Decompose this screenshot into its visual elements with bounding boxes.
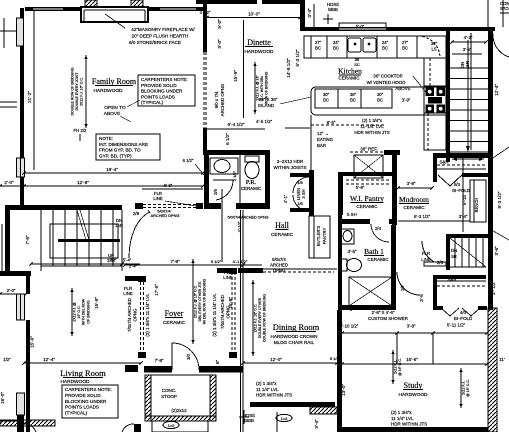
PR partition	[239, 155, 241, 203]
svg-text:11’: 11’	[499, 357, 505, 362]
arch opng dash e	[205, 52, 207, 128]
svg-text:2X12 F.J. @ 16” O.C.: 2X12 F.J. @ 16” O.C.	[194, 285, 198, 318]
svg-text:(2) 1 3/4”x: (2) 1 3/4”x	[391, 410, 412, 415]
cabinet division	[376, 36, 378, 58]
island div1	[337, 89, 339, 108]
arch dash w	[140, 282, 142, 352]
svg-text:4/0: 4/0	[460, 310, 467, 315]
dining north arch line	[263, 268, 337, 270]
svg-text:5/0x7/4: 5/0x7/4	[272, 257, 286, 262]
svg-text:ISLAND: ISLAND	[258, 103, 275, 108]
post foyer arch top	[138, 276, 146, 282]
svg-text:6”: 6”	[215, 359, 220, 364]
svg-text:24”: 24”	[333, 40, 340, 45]
svg-text:15R: 15R	[465, 61, 470, 69]
kitchen island	[311, 87, 447, 115]
svg-text:3’-5: 3’-5	[419, 294, 424, 302]
stair break diag	[77, 210, 86, 240]
svg-text:12’-4”: 12’-4”	[43, 357, 55, 362]
svg-text:3/0: 3/0	[186, 353, 191, 359]
svg-text:Mudroom: Mudroom	[399, 195, 429, 204]
svg-text:2/4: 2/4	[375, 226, 382, 231]
ext line 397	[396, 333, 398, 364]
stair left edge	[40, 210, 42, 271]
dining arch post top	[229, 268, 237, 274]
svg-text:OF BRIDGING: OF BRIDGING	[86, 300, 90, 323]
svg-text:P.R.: P.R.	[246, 179, 257, 186]
bsmt stair bottom	[450, 266, 486, 268]
svg-text:LINE: LINE	[223, 275, 233, 280]
bsmt tread	[454, 238, 456, 267]
dining north arch dash	[263, 271, 334, 273]
wall basement stair west wall	[446, 234, 450, 270]
wall study bottom wall	[342, 427, 488, 432]
svg-text:15’-9”: 15’-9”	[94, 297, 99, 309]
drawing edge line	[502, 0, 504, 27]
svg-text:DOUBLE EVERY JOIST: DOUBLE EVERY JOIST	[75, 72, 79, 111]
svg-text:5’-0”: 5’-0”	[356, 24, 365, 29]
svg-text:BC: BC	[333, 46, 339, 51]
svg-text:14’-8 1/2”: 14’-8 1/2”	[286, 58, 291, 78]
svg-text:3’-8”: 3’-8”	[407, 181, 416, 186]
wall top wall seg3	[148, 7, 160, 11]
svg-text:BC: BC	[350, 98, 356, 103]
wall closet top wall	[433, 275, 486, 279]
svg-text:BAR: BAR	[317, 143, 326, 148]
wall PR bottom wall west	[204, 203, 221, 209]
svg-text:6’-6”: 6’-6”	[164, 183, 173, 188]
stair tread r	[450, 130, 488, 132]
wall PR bottom wall east	[236, 203, 270, 209]
svg-text:FROM GYP. BD. TO: FROM GYP. BD. TO	[99, 148, 141, 153]
cabinet division	[346, 36, 348, 58]
svg-text:5/0X7/4 ARCHED OPNG: 5/0X7/4 ARCHED OPNG	[228, 216, 269, 220]
wall mudroom NW wall stub	[384, 150, 400, 155]
svg-text:HARDWOOD: HARDWOOD	[93, 88, 123, 94]
door arc top right	[493, 34, 509, 57]
wall bath west wall	[338, 215, 342, 310]
svg-text:HDR WITHIN JTS: HDR WITHIN JTS	[391, 422, 427, 427]
linen double doors	[293, 177, 309, 193]
svg-text:CERAMIC: CERAMIC	[271, 232, 294, 238]
svg-text:5 SH: 5 SH	[347, 212, 357, 217]
fireplace masonry box	[81, 7, 148, 22]
svg-text:9’-3 1/2”: 9’-3 1/2”	[497, 191, 502, 208]
svg-text:CERAMIC: CERAMIC	[163, 320, 186, 326]
svg-text:19’-4”: 19’-4”	[106, 167, 118, 172]
svg-text:10’-0”: 10’-0”	[248, 12, 260, 17]
svg-text:WITH DBL ROW: WITH DBL ROW	[82, 298, 86, 325]
svg-text:3’-4”: 3’-4”	[307, 8, 312, 18]
wall left exterior below window	[20, 177, 24, 205]
custom shower box	[349, 277, 392, 306]
dim 10-0	[207, 17, 300, 19]
svg-text:4’-5 1/2”: 4’-5 1/2”	[256, 119, 273, 124]
wall pantry bottom wall w	[338, 219, 370, 224]
dining arch post bottom	[229, 352, 237, 358]
svg-text:4’-2”: 4’-2”	[464, 35, 473, 40]
arch opng dash w	[203, 52, 205, 128]
svg-text:15’-8”: 15’-8”	[228, 297, 233, 309]
shower diag2	[349, 277, 392, 306]
svg-text:3’-6”: 3’-6”	[494, 246, 499, 256]
svg-text:17’-5”: 17’-5”	[154, 284, 159, 296]
corner cabinet arcs	[418, 36, 440, 58]
door 2/8 stair hall	[129, 212, 150, 258]
leader diag 1	[490, 147, 509, 160]
stair tread r	[450, 88, 488, 90]
svg-text:1/6: 1/6	[297, 201, 303, 206]
left porch line2	[0, 101, 17, 103]
mudroom ext line	[462, 158, 464, 232]
svg-text:LS: LS	[431, 47, 436, 52]
svg-text:Dining Room: Dining Room	[273, 322, 320, 332]
stair bottom edge	[41, 265, 122, 267]
wall bath east wall	[391, 225, 396, 310]
arch dash 2w	[231, 272, 233, 358]
svg-text:POINTS LOADS: POINTS LOADS	[65, 405, 99, 410]
svg-text:36” COOKTOP: 36” COOKTOP	[373, 74, 403, 79]
island div2	[360, 89, 362, 108]
stair tread	[112, 210, 114, 266]
svg-text:PROVIDE SOLID: PROVIDE SOLID	[65, 393, 101, 398]
svg-text:3’-4”: 3’-4”	[314, 419, 319, 429]
wall PR west wall	[204, 155, 209, 203]
svg-text:(2)2x12: (2)2x12	[171, 408, 187, 413]
hose sym v2	[243, 410, 245, 424]
hose sym v	[327, 14, 329, 24]
svg-text:CERAMIC: CERAMIC	[356, 204, 378, 209]
svg-text:5’-11 1/2”: 5’-11 1/2”	[447, 323, 466, 328]
open above leader	[127, 100, 140, 107]
joist note foyer	[192, 259, 194, 344]
stair tread	[52, 210, 54, 266]
ref recess dash	[350, 151, 386, 153]
svg-text:(TYPICAL): (TYPICAL)	[65, 411, 88, 416]
landing arrow	[452, 158, 484, 160]
stair center rail	[58, 239, 120, 242]
dim 21-2 line	[33, 11, 35, 170]
cooktop leader	[413, 76, 428, 95]
svg-text:MLDG CHAIR RAIL: MLDG CHAIR RAIL	[274, 340, 315, 345]
svg-text:LINE: LINE	[421, 257, 431, 262]
left porch line	[1, 224, 3, 274]
wall kitchen top wall west	[300, 27, 339, 31]
svg-text:27”: 27”	[402, 40, 409, 45]
butlers pantry counter line	[313, 216, 315, 258]
svg-text:6’-3 1/2”: 6’-3 1/2”	[414, 214, 431, 219]
window left wall family room	[17, 158, 25, 177]
eating bar west line	[310, 115, 312, 170]
svg-text:16’-0”: 16’-0”	[0, 392, 5, 404]
dim 12-4r line	[470, 33, 472, 150]
family-hall arch dash n	[143, 204, 196, 206]
svg-text:Family Room: Family Room	[92, 77, 137, 86]
svg-text:27”: 27”	[315, 40, 322, 45]
arch post west	[135, 203, 143, 209]
wall living SE stub	[134, 424, 141, 432]
svg-text:DOUBLE ROW OF BRIDGING: DOUBLE ROW OF BRIDGING	[263, 294, 267, 342]
left porch window sill upper	[17, 18, 24, 46]
svg-text:CERAMIC: CERAMIC	[403, 205, 425, 210]
dim 12-0	[243, 362, 337, 364]
svg-text:ABOVE: ABOVE	[395, 86, 410, 91]
wall mudroom closet top wall	[433, 153, 488, 158]
post foyer arch bottom	[138, 352, 146, 358]
dim 3-8	[398, 187, 432, 189]
cabinet division	[310, 36, 312, 58]
carpenters note box 2	[62, 385, 118, 418]
wall stair west wall	[446, 31, 450, 162]
wall top wall corner piece	[25, 7, 33, 11]
stair break diag2	[80, 210, 89, 240]
svg-text:2X12 F.J. @: 2X12 F.J. @	[73, 302, 77, 322]
wall dining-study divider wall	[337, 310, 342, 432]
svg-text:8’-5”: 8’-5”	[327, 120, 336, 125]
svg-text:S&R: S&R	[439, 160, 448, 165]
svg-text:STOOP: STOOP	[161, 394, 177, 399]
dim 6.5 leader	[195, 164, 204, 175]
stair tread r	[450, 67, 488, 69]
svg-text:5’-10 1/2”: 5’-10 1/2”	[340, 324, 359, 329]
joist note living	[71, 288, 73, 336]
dinette window	[211, 0, 241, 2]
svg-text:@ 16” O.C.: @ 16” O.C.	[466, 379, 470, 397]
svg-text:OPEN TO: OPEN TO	[104, 105, 126, 111]
arch post east	[196, 203, 203, 209]
svg-text:24”: 24”	[382, 40, 389, 45]
svg-text:DOUBLE ROW OF BRIDGING: DOUBLE ROW OF BRIDGING	[70, 67, 74, 115]
stair arrow line	[467, 40, 469, 150]
wall family-dinette divider upper	[203, 11, 207, 52]
hose sym h	[323, 18, 333, 20]
svg-text:15’-6”: 15’-6”	[406, 357, 418, 362]
svg-text:(2) 1 3/4”x: (2) 1 3/4”x	[362, 118, 383, 123]
svg-text:EATING: EATING	[317, 137, 334, 142]
hall ext line	[221, 189, 223, 262]
east cab dash	[429, 58, 431, 86]
svg-text:4’-10”: 4’-10”	[237, 221, 242, 232]
svg-text:DN: DN	[451, 248, 457, 253]
stair right edge	[121, 210, 123, 271]
open above leader2	[120, 116, 131, 122]
svg-text:15R: 15R	[115, 223, 123, 228]
svg-text:PROVIDE SOLID: PROVIDE SOLID	[141, 83, 177, 88]
svg-text:36” REF.: 36” REF.	[360, 147, 378, 152]
wall closet west wall	[433, 275, 437, 310]
svg-text:30”: 30”	[323, 92, 330, 97]
stair tread r	[450, 141, 488, 143]
eating bar dashed overhang	[311, 124, 384, 126]
dim 3-6	[452, 53, 482, 55]
island cabinet row	[315, 89, 392, 108]
wall hall south wall e	[238, 268, 263, 273]
svg-text:BIBB: BIBB	[244, 418, 254, 423]
bsmt tread	[482, 238, 484, 267]
svg-text:BC: BC	[323, 98, 329, 103]
ref diag1	[354, 155, 383, 178]
wall foyer NW wall stub	[125, 276, 141, 281]
wall closet bottom wall r	[462, 173, 488, 177]
right party wall hatched	[488, 308, 497, 432]
closet shelf line	[437, 280, 486, 282]
wall closet bottom stub w	[433, 306, 443, 310]
svg-text:ARCHED OPNG: ARCHED OPNG	[151, 213, 180, 218]
ref diag2	[354, 155, 383, 178]
door 2/4 pantry	[371, 224, 389, 242]
wall kitchen top wall east	[386, 27, 495, 31]
svg-text:@ 16” O.C.: @ 16” O.C.	[398, 358, 402, 376]
arch dash e	[143, 282, 145, 352]
svg-text:1=2: 1=2	[281, 416, 289, 421]
svg-text:Study: Study	[404, 381, 423, 390]
wall pantry west wall	[338, 172, 343, 215]
svg-text:12’-4”: 12’-4”	[494, 84, 499, 96]
svg-text:3’-9”: 3’-9”	[402, 98, 411, 103]
svg-text:3–2X12 HDR: 3–2X12 HDR	[277, 159, 304, 164]
svg-text:HARDWOOD: HARDWOOD	[398, 392, 428, 398]
wall linen east wall	[309, 170, 314, 216]
svg-text:W/ VENTED HOOD: W/ VENTED HOOD	[367, 80, 406, 85]
wall left wall below window	[17, 415, 24, 432]
oval ext line	[276, 412, 278, 432]
svg-text:30”: 30”	[377, 92, 384, 97]
wall stair west wall	[5, 205, 10, 274]
svg-text:1/2”: 1/2”	[3, 357, 11, 362]
svg-text:12” →: 12” →	[317, 131, 329, 136]
svg-text:2’-8” X 4’-6”: 2’-8” X 4’-6”	[372, 310, 395, 315]
dim 6-4.5	[207, 128, 265, 130]
svg-text:4’-1”: 4’-1”	[283, 194, 288, 203]
stair tread	[100, 210, 102, 266]
svg-text:LINE: LINE	[123, 291, 133, 296]
ext line 433	[432, 333, 434, 364]
svg-text:ARCHED OPNG: ARCHED OPNG	[220, 83, 225, 116]
svg-text:11 1/4” LVL: 11 1/4” LVL	[391, 416, 414, 421]
stair tread	[40, 210, 42, 266]
svg-text:2’-4”: 2’-4”	[129, 264, 138, 269]
bsmt tread	[475, 238, 477, 267]
dim 6-6 line	[142, 188, 203, 190]
hose sym h2	[239, 416, 249, 418]
svg-text:POINTS LOADS: POINTS LOADS	[141, 94, 175, 99]
svg-text:Kitchen: Kitchen	[338, 67, 362, 76]
svg-text:16” O.C.: 16” O.C.	[77, 305, 81, 318]
svg-text:5’-3 1/2”: 5’-3 1/2”	[295, 49, 300, 66]
S&R rod line	[437, 168, 486, 170]
stair tread	[64, 210, 66, 266]
dining west line	[240, 210, 242, 432]
svg-text:BC: BC	[315, 46, 321, 51]
svg-text:1/6: 1/6	[297, 180, 303, 185]
svg-text:FLR: FLR	[422, 251, 430, 256]
stair tread r	[450, 78, 488, 80]
svg-text:ARCHED: ARCHED	[270, 263, 288, 268]
dim 4-2	[452, 41, 486, 43]
shower diag1	[349, 277, 392, 306]
stair walk rect	[50, 224, 118, 258]
wall PR top wall	[204, 150, 270, 155]
keynote oval 2	[276, 414, 292, 421]
svg-text:5’-10: 5’-10	[462, 194, 467, 205]
svg-text:4 1/2”: 4 1/2”	[200, 10, 211, 15]
svg-text:BLOCKING UNDER: BLOCKING UNDER	[141, 89, 183, 94]
svg-text:6’-4 1/2”: 6’-4 1/2”	[228, 122, 245, 127]
bottom left porch wall hatched	[0, 420, 55, 426]
living SW door arc	[24, 424, 36, 432]
joist note study	[460, 368, 462, 408]
svg-text:DOUBLE EVERY OTHER: DOUBLE EVERY OTHER	[258, 297, 262, 338]
dining west line2	[242, 210, 244, 432]
wall dining bottom wall	[250, 402, 335, 407]
dim 12-4	[24, 362, 141, 364]
svg-text:HARDWOOD: HARDWOOD	[244, 49, 274, 55]
svg-text:5/3: 5/3	[454, 182, 460, 187]
wall PR east wall	[265, 155, 270, 203]
stair tread	[88, 210, 90, 266]
fireplace hatched pier right	[131, 0, 143, 7]
kitchen sink double bowl	[348, 38, 361, 52]
left upper stub	[3, 18, 5, 48]
svg-text:Hall: Hall	[275, 221, 290, 230]
bsmt stair diag	[450, 238, 486, 267]
wall right exterior wall upper	[488, 31, 493, 310]
wall closet bottom stub e	[478, 306, 487, 310]
stair tread	[76, 210, 78, 266]
svg-text:5’-4”: 5’-4”	[123, 258, 132, 263]
svg-text:6 1/2”: 6 1/2”	[211, 259, 222, 264]
svg-text:3’-8”: 3’-8”	[407, 324, 416, 329]
window left wall living room	[17, 294, 25, 320]
fireplace hatched pier left	[85, 0, 97, 7]
top right tick	[500, 12, 509, 14]
stoop landing	[152, 421, 208, 432]
svg-text:(2) 1 3/4”x 11 1/4” LVL: (2) 1 3/4”x 11 1/4” LVL	[145, 293, 150, 337]
svg-text:CARPENTERS NOTE:: CARPENTERS NOTE:	[141, 77, 188, 82]
svg-text:Foyer: Foyer	[165, 309, 184, 318]
dim 6-3.5 line	[398, 220, 470, 222]
svg-text:2/8: 2/8	[133, 211, 140, 216]
svg-text:1=2: 1=2	[168, 423, 176, 428]
wall stair bottom wall	[0, 271, 31, 276]
svg-text:CERAMIC: CERAMIC	[241, 186, 261, 191]
svg-text:INT. DIMENSIONS ARE: INT. DIMENSIONS ARE	[99, 142, 148, 147]
svg-text:42”MASONRY FIREPLACE W/: 42”MASONRY FIREPLACE W/	[131, 27, 195, 32]
door leaf 2/8	[148, 210, 150, 213]
wall pantry bottom wall e	[389, 219, 397, 224]
svg-text:NOTE:: NOTE:	[99, 136, 113, 141]
svg-text:HDR WITHIN JTS: HDR WITHIN JTS	[256, 393, 292, 398]
wall S&R closet west wall	[433, 153, 437, 182]
svg-text:HARDWOOD CROWN: HARDWOOD CROWN	[271, 334, 318, 339]
left porch line3	[0, 106, 17, 108]
svg-text:HARDWOOD: HARDWOOD	[60, 379, 90, 385]
joist note dining	[252, 280, 254, 356]
stair tread r	[450, 151, 488, 153]
svg-text:7’-8”: 7’-8”	[170, 259, 180, 264]
dim 2-0 lr	[0, 293, 26, 295]
carpenters note box	[138, 75, 195, 106]
svg-text:2’-0”: 2’-0”	[4, 180, 14, 185]
5/3 bifold door	[438, 175, 462, 186]
svg-text:12’-0”: 12’-0”	[270, 357, 282, 362]
wall hall south wall w	[217, 268, 229, 273]
svg-text:W/ DBL ROW OF BRIDGING: W/ DBL ROW OF BRIDGING	[203, 278, 207, 324]
svg-text:OPNG: OPNG	[133, 308, 138, 322]
bench	[470, 180, 486, 222]
svg-text:2X12 F.J. 16” O.C.: 2X12 F.J. 16” O.C.	[80, 77, 84, 106]
svg-text:(2) 1 3/4”x 11 1/4” LVL: (2) 1 3/4”x 11 1/4” LVL	[212, 293, 217, 337]
